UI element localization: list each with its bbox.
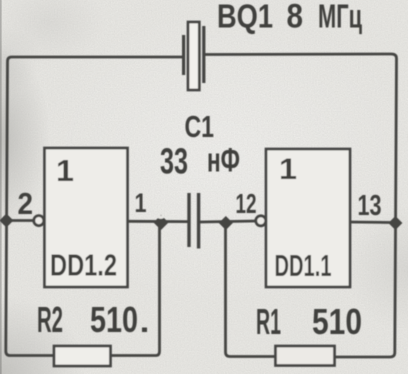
svg-text:1: 1 [135, 188, 147, 218]
svg-text:12: 12 [236, 188, 257, 219]
svg-text:C1: C1 [185, 110, 215, 144]
svg-text:2: 2 [18, 187, 34, 221]
svg-text:МГц: МГц [318, 0, 362, 36]
svg-text:510: 510 [312, 301, 362, 342]
svg-text:8: 8 [287, 0, 304, 36]
svg-text:510: 510 [90, 299, 138, 340]
svg-text:1: 1 [56, 153, 74, 188]
svg-text:DD1.1: DD1.1 [275, 248, 332, 283]
svg-text:33: 33 [160, 141, 188, 182]
svg-text:1: 1 [279, 153, 297, 186]
svg-text:R1: R1 [256, 301, 281, 342]
svg-text:R2: R2 [37, 299, 63, 340]
svg-text:DD1.2: DD1.2 [50, 248, 117, 283]
svg-text:BQ1: BQ1 [217, 0, 273, 36]
svg-text:нФ: нФ [207, 142, 240, 180]
svg-text:13: 13 [358, 190, 382, 222]
